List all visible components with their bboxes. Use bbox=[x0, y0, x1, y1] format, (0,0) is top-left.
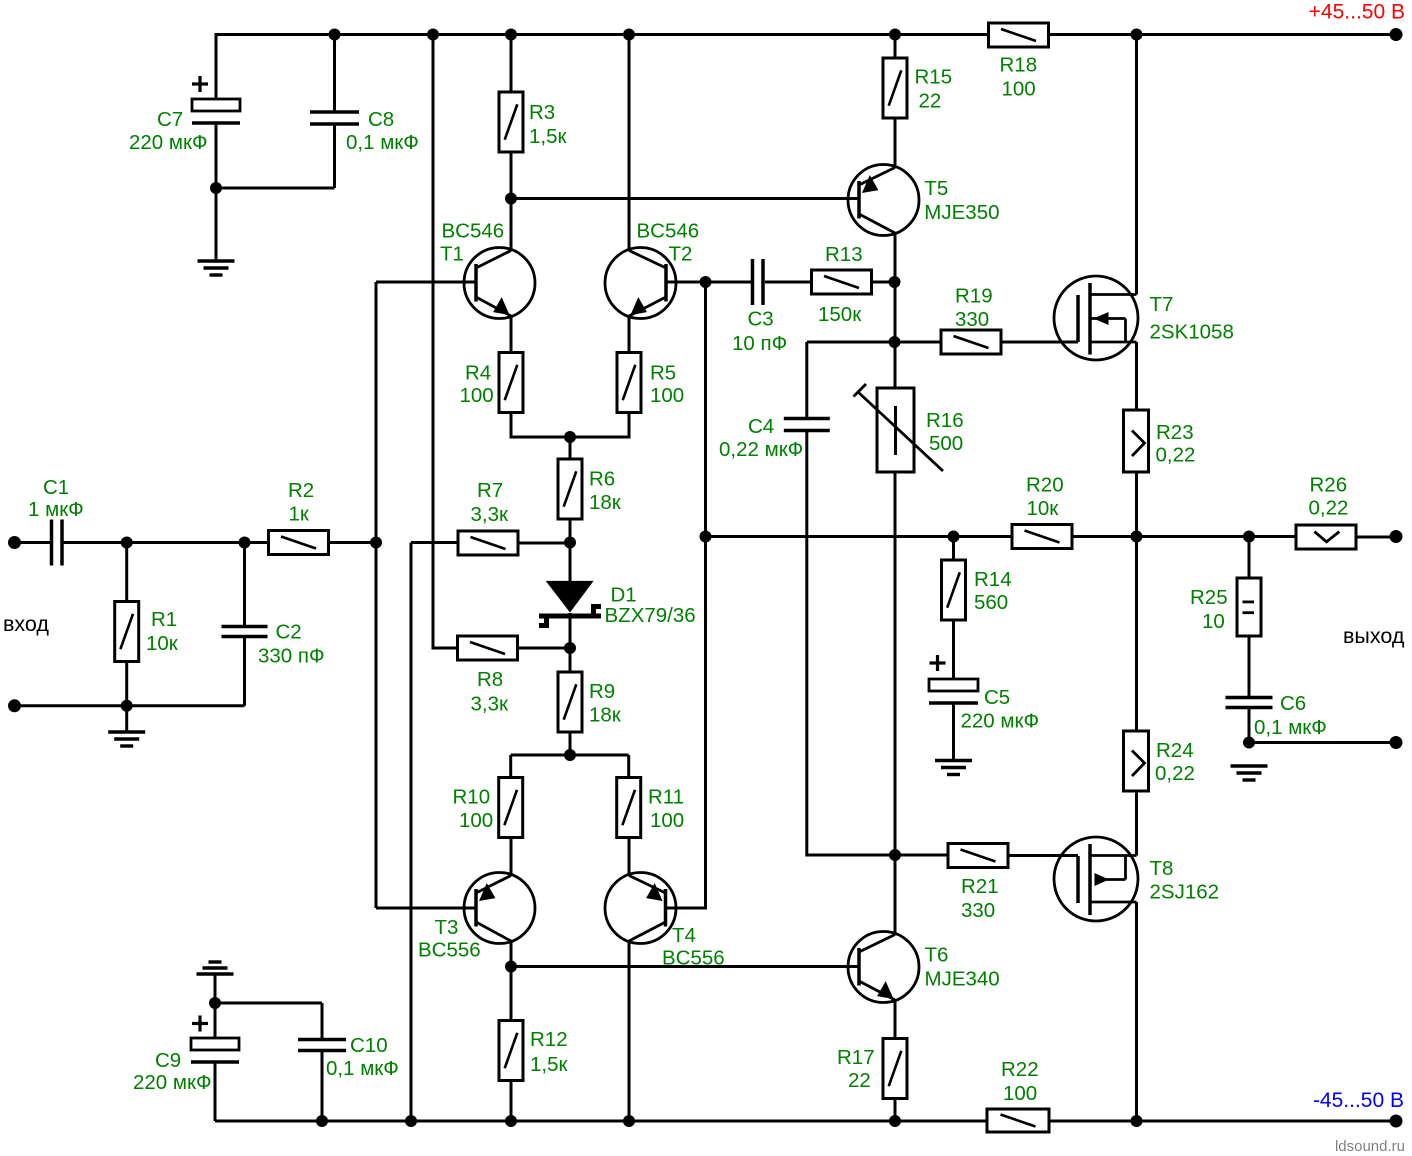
wire R12 bottom lead bbox=[510, 1081, 513, 1121]
svg-text:T6: T6 bbox=[925, 944, 949, 967]
wire T2 base bbox=[666, 281, 705, 284]
svg-text:R19: R19 bbox=[955, 285, 993, 308]
capacitor C10 bbox=[298, 1038, 346, 1042]
wire R10 top lead bbox=[509, 755, 512, 778]
node R13 junction bbox=[889, 276, 901, 288]
wire T3 collector bbox=[510, 940, 513, 1020]
wire mid rail to R24 bbox=[1135, 537, 1138, 732]
wire R17 bottom lead bbox=[894, 1098, 897, 1121]
node R7 bottom rail junction bbox=[405, 1115, 417, 1127]
wire C4 top lead bbox=[805, 342, 808, 419]
wire R7 to bottom rail bbox=[410, 543, 413, 1122]
transistor T2 BC546 bbox=[605, 248, 676, 319]
resistor R15 bbox=[883, 58, 907, 118]
node R19-C4 junction bbox=[889, 336, 901, 348]
svg-text:R12: R12 bbox=[530, 1028, 568, 1051]
svg-text:100: 100 bbox=[1003, 1082, 1037, 1105]
transistor T6 MJE340 bbox=[848, 932, 919, 1003]
wire output ground link bbox=[1249, 741, 1396, 744]
node R21 junction bbox=[889, 849, 901, 861]
svg-text:C5: C5 bbox=[984, 686, 1010, 709]
node C6 ground junction bbox=[1243, 737, 1255, 749]
wire T3 base bbox=[376, 907, 476, 910]
svg-text:-45...50 В: -45...50 В bbox=[1313, 1089, 1404, 1112]
svg-text:100: 100 bbox=[459, 809, 493, 832]
svg-text:D1: D1 bbox=[611, 583, 637, 606]
node C7-C8 junction bbox=[210, 182, 222, 194]
svg-text:R11: R11 bbox=[648, 785, 684, 808]
node output ground terminal bbox=[1390, 736, 1403, 749]
svg-text:C9: C9 bbox=[155, 1049, 181, 1072]
wire R5 bottom bbox=[570, 412, 629, 437]
svg-text:R10: R10 bbox=[453, 785, 491, 808]
wire C9 top lead bbox=[214, 1003, 217, 1038]
svg-text:R23: R23 bbox=[1156, 421, 1194, 444]
wire D1 to R9 node bbox=[569, 613, 572, 672]
capacitor C6 bbox=[1226, 696, 1273, 700]
svg-text:R16: R16 bbox=[926, 409, 964, 432]
resistor R11 bbox=[617, 778, 641, 838]
wire R13 right lead bbox=[872, 281, 895, 284]
wire R19 left lead bbox=[895, 341, 942, 344]
node R8 top rail junction bbox=[427, 29, 439, 41]
svg-text:R4: R4 bbox=[465, 361, 491, 384]
wire R11 top lead bbox=[627, 755, 630, 778]
wire mid rail left bbox=[706, 535, 1013, 538]
wire T4 emitter lead bbox=[628, 837, 631, 874]
svg-text:0,1 мкФ: 0,1 мкФ bbox=[326, 1057, 399, 1080]
wire C9-C10 top link bbox=[215, 1002, 322, 1005]
capacitor C2 bbox=[222, 625, 268, 629]
node output device junction bbox=[1131, 531, 1143, 543]
node R2 feedback junction bbox=[370, 537, 382, 549]
node +45V terminal bbox=[1390, 28, 1403, 41]
resistor R14 bbox=[942, 560, 966, 620]
wire C6 bottom lead bbox=[1248, 708, 1251, 743]
capacitor C4 bbox=[784, 417, 830, 421]
wire input bottom bbox=[15, 704, 245, 707]
wire T3 emitter lead bbox=[510, 837, 513, 874]
resistor R10 bbox=[499, 778, 523, 838]
svg-text:560: 560 bbox=[974, 591, 1008, 614]
wire T2-T4 base feedback line bbox=[704, 282, 707, 908]
svg-text:BZX79/36: BZX79/36 bbox=[605, 604, 696, 627]
wire R4 bottom bbox=[511, 412, 570, 437]
capacitor C5 bbox=[929, 679, 978, 691]
capacitor C3 bbox=[751, 259, 755, 305]
transistor T7 2SK1058 bbox=[1054, 276, 1138, 360]
svg-text:10к: 10к bbox=[146, 632, 179, 655]
wire R1 top lead bbox=[125, 543, 128, 603]
transistor T8 2SJ162 bbox=[1054, 837, 1138, 921]
wire C1 to R2 bbox=[63, 541, 269, 544]
resistor R18 bbox=[989, 23, 1049, 47]
wire C10 top lead bbox=[321, 1003, 324, 1039]
node R7 node bbox=[564, 537, 576, 549]
wire R24 to T8 bbox=[1135, 791, 1138, 856]
wire R6 top lead bbox=[569, 437, 572, 460]
svg-text:C7: C7 bbox=[157, 108, 183, 131]
ground C9 inverted bbox=[209, 960, 222, 963]
svg-text:10к: 10к bbox=[1027, 497, 1060, 520]
svg-text:330 пФ: 330 пФ bbox=[258, 644, 325, 667]
wire R15 to T5 emitter bbox=[894, 118, 897, 165]
wire R15 top lead bbox=[894, 33, 897, 58]
wire R9 bottom bbox=[569, 732, 572, 755]
svg-text:R22: R22 bbox=[1001, 1058, 1039, 1081]
wire C2 top lead bbox=[243, 543, 246, 627]
node R3 top rail junction bbox=[505, 29, 517, 41]
svg-text:1,5к: 1,5к bbox=[530, 1053, 568, 1076]
wire R7 left lead bbox=[411, 541, 458, 544]
svg-text:0,22: 0,22 bbox=[1309, 497, 1349, 520]
svg-text:BC546: BC546 bbox=[637, 219, 700, 242]
wire R21 right lead bbox=[1008, 854, 1078, 857]
transistor T1 BC546 bbox=[464, 248, 535, 319]
svg-text:150к: 150к bbox=[818, 303, 862, 326]
svg-text:22: 22 bbox=[848, 1069, 871, 1092]
wire C2 bottom lead bbox=[243, 638, 246, 706]
diode D1 zener bbox=[546, 581, 594, 613]
capacitor C1 bbox=[50, 520, 54, 566]
wire R25 top lead bbox=[1248, 537, 1251, 579]
node C9 junction bbox=[209, 997, 221, 1009]
node input line lower terminal bbox=[8, 699, 21, 712]
wire C3 left lead bbox=[706, 281, 753, 284]
svg-text:R8: R8 bbox=[477, 668, 503, 691]
wire T1 emitter to R4 bbox=[510, 316, 513, 353]
node R12 bottom rail junction bbox=[505, 1115, 517, 1127]
node input ground junction bbox=[121, 700, 133, 712]
svg-text:R17: R17 bbox=[837, 1046, 875, 1069]
svg-text:3,3к: 3,3к bbox=[471, 693, 509, 716]
wire R1 bottom lead bbox=[125, 661, 128, 706]
svg-text:100: 100 bbox=[650, 809, 684, 832]
svg-text:C8: C8 bbox=[368, 108, 394, 131]
wire R16 bottom chain bbox=[894, 472, 897, 855]
wire C7 top lead bbox=[215, 33, 218, 99]
svg-text:100: 100 bbox=[1002, 78, 1036, 101]
svg-text:R2: R2 bbox=[288, 479, 314, 502]
resistor R22 bbox=[987, 1109, 1049, 1132]
wire R14 to C5 bbox=[952, 620, 955, 679]
wire input to C1 bbox=[15, 541, 52, 544]
transistor T3 BC556 bbox=[464, 873, 535, 944]
svg-text:C10: C10 bbox=[350, 1034, 388, 1057]
wire R19 to T7 gate bbox=[1001, 341, 1078, 344]
svg-text:10: 10 bbox=[1202, 610, 1225, 633]
wire C7 bottom lead bbox=[215, 123, 218, 261]
resistor R7 bbox=[458, 531, 518, 555]
svg-text:R9: R9 bbox=[589, 680, 615, 703]
wire T6 base bbox=[511, 965, 859, 968]
node T7 drain rail junction bbox=[1131, 29, 1143, 41]
svg-text:T2: T2 bbox=[669, 243, 693, 266]
node R25 junction bbox=[1243, 531, 1255, 543]
transistor T4 BC556 bbox=[605, 873, 676, 944]
resistor R2 bbox=[269, 531, 329, 555]
wire input ground stem bbox=[125, 706, 128, 732]
variable resistor R16 bbox=[877, 388, 914, 472]
svg-text:R25: R25 bbox=[1190, 586, 1228, 609]
svg-text:R13: R13 bbox=[825, 243, 863, 266]
node input terminal bbox=[8, 536, 21, 549]
node R8 node bbox=[564, 642, 576, 654]
svg-text:C6: C6 bbox=[1280, 692, 1306, 715]
node C2 top junction bbox=[239, 537, 251, 549]
wire C4 bottom lead bbox=[807, 431, 895, 856]
svg-text:2SJ162: 2SJ162 bbox=[1150, 880, 1220, 903]
ground C6 bbox=[1231, 764, 1268, 767]
resistor R19 bbox=[941, 330, 1001, 354]
svg-text:2SK1058: 2SK1058 bbox=[1150, 321, 1234, 344]
svg-text:R7: R7 bbox=[477, 479, 503, 502]
node T1 collector / T5 base node bbox=[505, 193, 517, 205]
svg-text:220 мкФ: 220 мкФ bbox=[133, 1071, 212, 1094]
node R1 top junction bbox=[121, 537, 133, 549]
svg-text:R18: R18 bbox=[1000, 54, 1038, 77]
svg-text:T8: T8 bbox=[1150, 857, 1174, 880]
wire R21 left lead bbox=[895, 854, 948, 857]
svg-text:330: 330 bbox=[955, 308, 989, 331]
resistor R26 bbox=[1296, 525, 1356, 549]
wire T4 base bbox=[666, 907, 708, 910]
wire R26 to output terminal bbox=[1356, 536, 1396, 539]
capacitor C7 bbox=[192, 99, 240, 111]
svg-text:18к: 18к bbox=[589, 704, 622, 727]
wire T5 collector chain bbox=[894, 235, 897, 388]
transistor T5 MJE350 bbox=[848, 165, 919, 236]
wire +45V top rail bbox=[216, 33, 1396, 36]
wire T6 collector bbox=[894, 855, 897, 935]
resistor R20 bbox=[1012, 525, 1072, 549]
wire C9 ground stem bbox=[214, 974, 217, 1003]
svg-text:T1: T1 bbox=[440, 243, 464, 266]
svg-text:R24: R24 bbox=[1156, 739, 1194, 762]
wire R8 rail lead bbox=[433, 35, 458, 649]
svg-text:T4: T4 bbox=[672, 924, 696, 947]
svg-text:BC546: BC546 bbox=[442, 219, 505, 242]
svg-text:T7: T7 bbox=[1150, 293, 1174, 316]
node R14 junction bbox=[948, 531, 960, 543]
wire R23 to mid rail bbox=[1135, 472, 1138, 537]
resistor R3 bbox=[499, 92, 523, 152]
wire R10-R11 top link bbox=[511, 754, 629, 757]
svg-text:R20: R20 bbox=[1026, 474, 1064, 497]
wire C9 bottom lead bbox=[214, 1062, 217, 1121]
wire R25 to C6 bbox=[1248, 636, 1251, 698]
svg-text:R3: R3 bbox=[529, 101, 555, 124]
svg-text:220 мкФ: 220 мкФ bbox=[129, 131, 208, 154]
wire C3 to R13 bbox=[765, 281, 811, 284]
ground C7 bbox=[198, 259, 235, 262]
svg-text:3,3к: 3,3к bbox=[471, 503, 509, 526]
resistor R13 bbox=[812, 270, 872, 294]
wire T2 collector to rail bbox=[628, 33, 631, 251]
svg-text:выход: выход bbox=[1343, 624, 1405, 648]
capacitor C9 bbox=[191, 1038, 239, 1050]
svg-text:R26: R26 bbox=[1310, 473, 1348, 496]
node C10 rail junction bbox=[316, 1115, 328, 1127]
svg-text:BC556: BC556 bbox=[418, 939, 481, 962]
resistor R23 bbox=[1124, 410, 1149, 472]
svg-text:220 мкФ: 220 мкФ bbox=[961, 709, 1040, 732]
resistor R9 bbox=[558, 672, 582, 732]
capacitor C8 bbox=[310, 110, 359, 114]
node T8 rail junction bbox=[1131, 1115, 1143, 1127]
svg-text:18к: 18к bbox=[589, 491, 622, 514]
resistor R17 bbox=[883, 1039, 907, 1099]
ground C5 bbox=[935, 759, 972, 762]
svg-text:0,1 мкФ: 0,1 мкФ bbox=[1254, 716, 1327, 739]
wire C5 bottom lead bbox=[952, 703, 955, 760]
wire C7-C8 bottom link bbox=[216, 187, 335, 190]
resistor R24 bbox=[1124, 731, 1149, 791]
svg-text:R21: R21 bbox=[961, 875, 999, 898]
svg-text:22: 22 bbox=[919, 90, 942, 113]
resistor R1 bbox=[115, 602, 139, 662]
svg-text:0,22 мкФ: 0,22 мкФ bbox=[719, 438, 803, 461]
wire R8 right lead bbox=[517, 647, 570, 650]
wire R3 to T1 collector bbox=[510, 152, 513, 251]
resistor R25 bbox=[1237, 578, 1261, 636]
svg-text:T3: T3 bbox=[435, 916, 459, 939]
svg-text:0,22: 0,22 bbox=[1155, 762, 1195, 785]
wire T4 collector to rail bbox=[628, 940, 631, 1121]
svg-text:500: 500 bbox=[929, 432, 963, 455]
resistor R4 bbox=[499, 353, 523, 413]
node diff pair tail junction bbox=[564, 431, 576, 443]
resistor R6 bbox=[558, 459, 582, 519]
node second pair feed junction bbox=[564, 749, 576, 761]
svg-text:MJE350: MJE350 bbox=[924, 201, 999, 224]
wire R6 to D1 bbox=[569, 518, 572, 582]
svg-text:ldsound.ru: ldsound.ru bbox=[1335, 1138, 1405, 1155]
resistor R5 bbox=[617, 353, 641, 413]
svg-text:0,22: 0,22 bbox=[1156, 444, 1196, 467]
svg-text:R5: R5 bbox=[650, 361, 676, 384]
node output terminal bbox=[1390, 530, 1403, 543]
node C3 junction bbox=[700, 276, 712, 288]
svg-text:R6: R6 bbox=[589, 468, 615, 491]
wire R2 to input line node bbox=[328, 541, 376, 544]
wire -45V bottom rail bbox=[215, 1120, 1396, 1123]
svg-text:MJE340: MJE340 bbox=[925, 967, 1000, 990]
svg-text:R1: R1 bbox=[151, 608, 177, 631]
node T2 collector rail junction bbox=[623, 29, 635, 41]
wire C8 top lead bbox=[333, 33, 336, 112]
node R17 rail junction bbox=[889, 1115, 901, 1127]
wire T7 drain from rail bbox=[1135, 33, 1138, 295]
wire R3 top lead bbox=[510, 33, 513, 92]
ground input bbox=[108, 730, 145, 733]
svg-text:1,5к: 1,5к bbox=[529, 125, 567, 148]
wire T7 source to R23 bbox=[1135, 342, 1138, 410]
node T6 base drive junction bbox=[505, 961, 517, 973]
svg-text:100: 100 bbox=[460, 384, 494, 407]
node C8 top rail junction bbox=[329, 29, 341, 41]
wire C4 top link bbox=[807, 341, 895, 344]
svg-text:C2: C2 bbox=[276, 620, 302, 643]
resistor R8 bbox=[458, 636, 518, 660]
wire T8 drain to rail bbox=[1135, 902, 1138, 1121]
node T4 collector rail junction bbox=[623, 1115, 635, 1127]
wire T2 emitter to R5 bbox=[628, 316, 631, 353]
wire T1-T3 base line bbox=[375, 282, 378, 908]
node R15 top rail junction bbox=[889, 29, 901, 41]
svg-text:вход: вход bbox=[3, 612, 49, 636]
wire R7 right lead bbox=[518, 542, 570, 545]
wire T5 base bbox=[511, 197, 859, 200]
node feedback-output junction bbox=[700, 531, 712, 543]
svg-text:T5: T5 bbox=[924, 177, 948, 200]
svg-text:10 пФ: 10 пФ bbox=[732, 332, 787, 355]
resistor R12 bbox=[499, 1021, 523, 1081]
svg-text:+45...50 В: +45...50 В bbox=[1309, 1, 1405, 24]
resistor R21 bbox=[948, 844, 1008, 868]
svg-text:0,1 мкФ: 0,1 мкФ bbox=[346, 131, 419, 154]
svg-text:1 мкФ: 1 мкФ bbox=[28, 498, 84, 521]
svg-text:R14: R14 bbox=[974, 568, 1012, 591]
node -45V terminal bbox=[1390, 1115, 1403, 1128]
wire mid rail right bbox=[1072, 535, 1296, 538]
svg-text:R15: R15 bbox=[915, 66, 953, 89]
wire T1 base bbox=[376, 281, 476, 284]
svg-text:C3: C3 bbox=[748, 308, 774, 331]
wire R14 top lead bbox=[952, 537, 955, 561]
svg-text:C4: C4 bbox=[748, 415, 774, 438]
wire C8 bottom lead bbox=[333, 124, 336, 188]
svg-text:1к: 1к bbox=[289, 503, 310, 526]
svg-text:330: 330 bbox=[961, 899, 995, 922]
svg-text:C1: C1 bbox=[43, 476, 69, 499]
svg-text:100: 100 bbox=[650, 384, 684, 407]
wire T6 emitter to R17 bbox=[894, 1000, 897, 1039]
wire C10 bottom lead bbox=[321, 1051, 324, 1122]
